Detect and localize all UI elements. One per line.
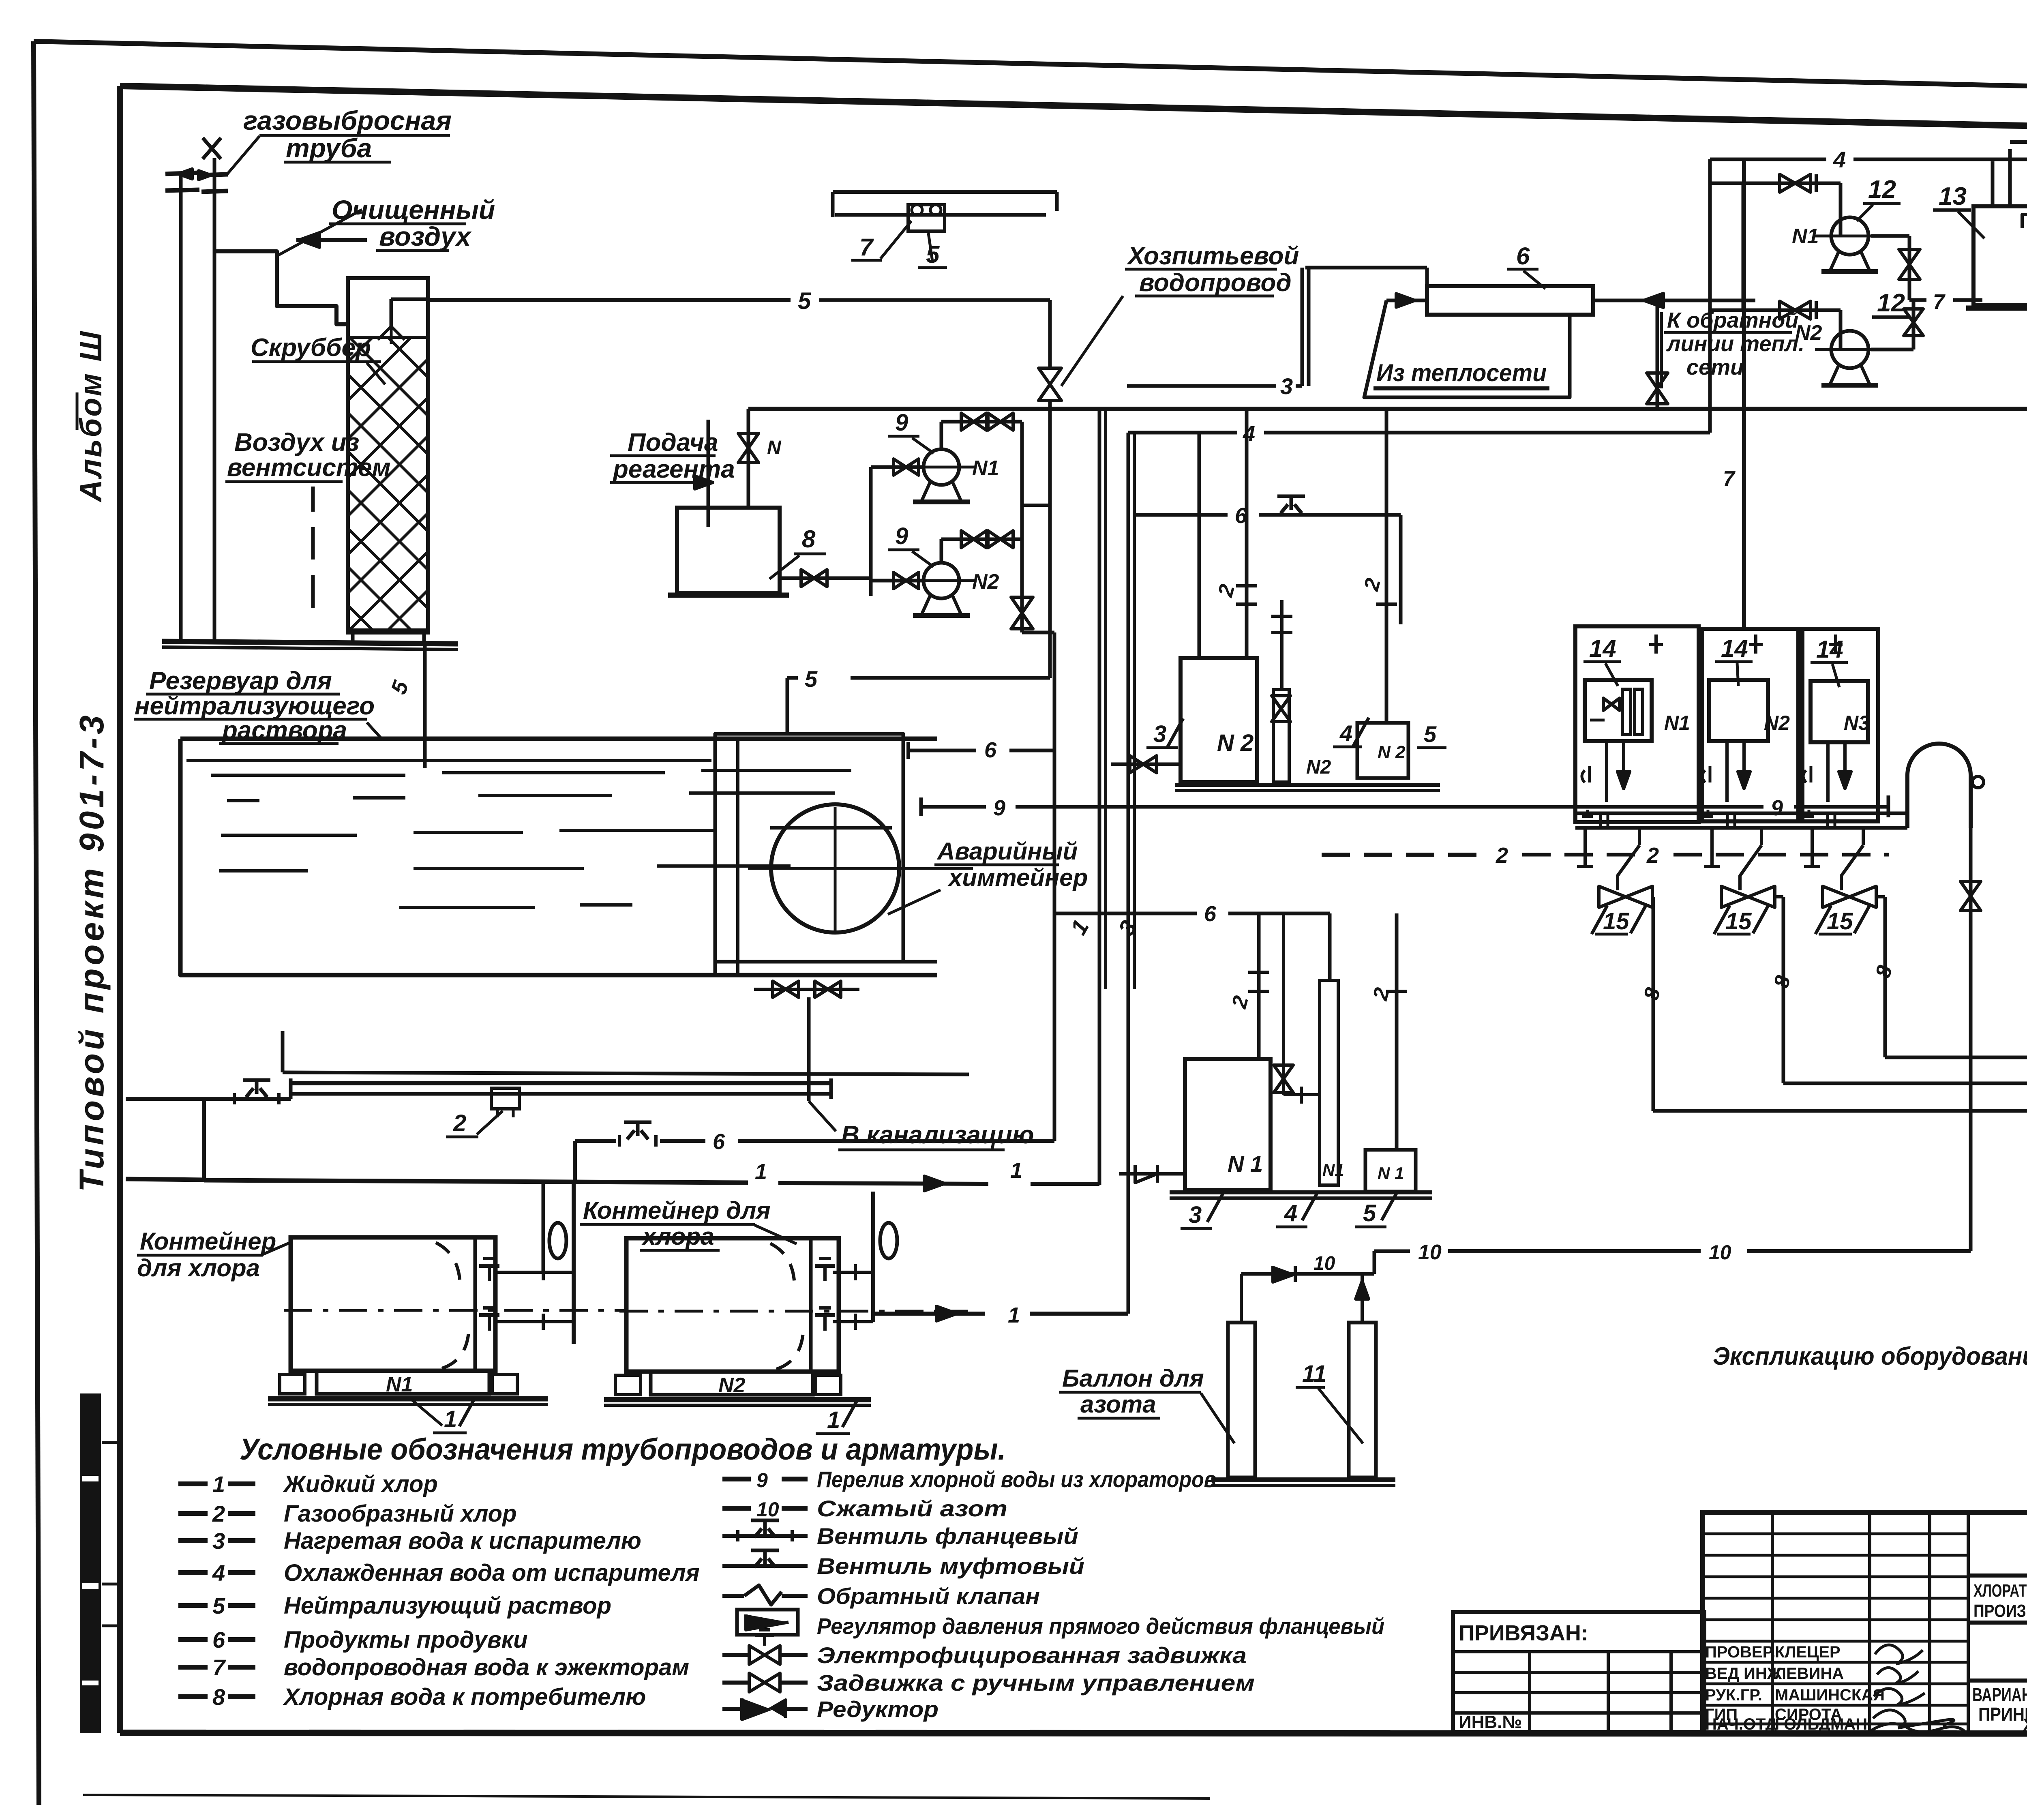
svg-text:ГОЛЬДМАН: ГОЛЬДМАН [1775,1715,1867,1733]
pipe 2 wall stub with valve [126,1097,291,1101]
top right fitting N2 [1754,635,1757,654]
evaporator vessel N2 (pos 3) [1181,658,1257,782]
top right fitting N3 [1834,635,1837,654]
svg-text:14: 14 [1589,635,1616,662]
svg-text:Газообразный хлор: Газообразный хлор [284,1501,517,1527]
svg-text:12: 12 [1877,289,1905,317]
svg-text:N3: N3 [1844,712,1870,734]
svg-text:НАЧ.ОТД: НАЧ.ОТД [1705,1715,1777,1733]
heating loop from network [1364,300,1570,397]
pipe 1 riser from wall [202,1099,206,1180]
pump 9 N2 discharge [940,539,943,563]
return line with valve [1593,299,1755,302]
chimney flange ticks [165,173,199,174]
pump N2 discharge [1871,348,1913,352]
chlorine container N2 [626,1238,839,1372]
svg-text:9: 9 [993,796,1005,820]
emergency chem container circle [771,804,899,933]
svg-text:Нейтрализующий раствор: Нейтрализующий раствор [284,1593,611,1619]
loop seal pipe arc [1907,744,1971,828]
sheet inner frame [120,86,2027,134]
svg-text:Очищенный: Очищенный [332,195,495,225]
check valve at inlet [1119,1172,1185,1176]
svg-text:МАШИНСКАЯ: МАШИНСКАЯ [1775,1686,1885,1704]
pipe 5 from scrubber [428,298,791,302]
base under lower evaporators [1170,1190,1432,1194]
legend symbol: flanged valve [722,1534,808,1538]
pipe to heat exchanger [1305,266,1427,270]
svg-text:ПРОВЕР.: ПРОВЕР. [1705,1643,1775,1661]
svg-text:газовыбросная: газовыбросная [243,105,452,135]
svg-text:химтейнер: химтейнер [947,864,1088,891]
svg-text:N2: N2 [972,570,999,594]
valve 15 (N2) [1721,886,1748,907]
svg-text:Хозпитьевой: Хозпитьевой [1127,242,1299,270]
container N1 axis [284,1309,624,1312]
chlorinator 14 N1 cabinet [1575,626,1699,822]
inlet valve [1111,763,1181,766]
small hatch on top [2022,214,2027,228]
pump loop top pipe 4 [1710,158,1826,161]
svg-text:4: 4 [1833,147,1846,172]
legend line type 4 [178,1570,208,1575]
monorail beam 2 [291,1081,831,1085]
suction valve N2 [871,579,924,583]
svg-text:11: 11 [1302,1361,1326,1387]
pipe 10 horizontal [1374,1250,1410,1253]
svg-text:Из теплосети: Из теплосети [1376,359,1547,386]
vertical pipe 3 (long) [1127,433,1130,1314]
ejector jog N3 [1862,828,1865,845]
pipe 6 upper segment [908,749,976,752]
top stubs of apparatus 13 [1991,161,1995,206]
chlorinator 14 N2 cabinet [1702,629,1798,821]
branch to pump 12 N2 [1710,309,1841,312]
electro valve on pipe 5 [1039,368,1061,384]
container N2 outlet stubs [833,1271,873,1274]
svg-text:Обратный клапан: Обратный клапан [817,1583,1040,1609]
vertical pipe 2c [1198,433,1201,658]
tank 8 [677,508,780,593]
svg-text:РУК.ГР.: РУК.ГР. [1705,1686,1762,1704]
technical water pipes [2010,140,2027,144]
svg-text:N1: N1 [1792,225,1819,248]
svg-text:7: 7 [1723,467,1736,491]
small vessel N1 (pos 5) [1365,1150,1416,1192]
svg-text:7: 7 [212,1655,226,1680]
pipe 3 riser [1301,268,1304,386]
chlorinator 14 N3 body [1811,681,1868,742]
legend line type 8 [178,1694,208,1699]
riser to level column [1280,600,1283,690]
svg-text:водопроводная вода к эжекторам: водопроводная вода к эжекторам [284,1654,689,1681]
pipe 10 elbow to bottles [1373,1251,1376,1274]
svg-text:5: 5 [805,666,818,692]
branch to pump 12 N1 [1710,182,1841,185]
svg-text:N1: N1 [972,457,999,480]
vertical pipe 2 to evaporator N2 [1245,409,1249,658]
pump discharge header down [1020,422,1024,632]
pipe riser mid [281,1031,285,1072]
legend symbol: manual gate valve [722,1681,750,1685]
svg-text:Вентиль муфтовый: Вентиль муфтовый [817,1553,1084,1579]
level column [1273,690,1289,782]
svg-text:3: 3 [1189,1202,1202,1228]
svg-text:Условные обозначения трубопров: Условные обозначения трубопроводов и арм… [240,1432,1006,1466]
svg-text:14: 14 [1721,635,1748,662]
svg-text:труба: труба [286,133,372,163]
svg-text:Хлорная вода к потребителю: Хлорная вода к потребителю [283,1684,646,1710]
neutralising reservoir tank [180,737,937,741]
legend symbol: coupling valve [722,1564,808,1568]
svg-text:N2: N2 [1764,712,1790,734]
title block left grid [1771,1512,1774,1733]
svg-text:Жидкий хлор: Жидкий хлор [283,1471,438,1497]
svg-text:азота: азота [1080,1391,1156,1418]
manifold band under chlorinators [1575,812,1907,815]
svg-text:N1: N1 [1322,1160,1344,1179]
svg-text:Нагретая вода к испарителю: Нагретая вода к испарителю [284,1528,641,1554]
legend line type 7 [178,1665,208,1670]
sidebar stamp column [80,1393,101,1733]
container N2 axis [619,1310,968,1313]
svg-text:ПРОИЗВОДИТЕЛЬНОСТЬЮ 12,5КГ ТОВ: ПРОИЗВОДИТЕЛЬНОСТЬЮ 12,5КГ ТОВАРНОГО ХЛО… [1973,1601,2027,1621]
svg-text:9: 9 [1771,796,1783,820]
base ticks N3 [1826,813,1829,828]
svg-text:9: 9 [895,409,908,436]
legend line type 10 [722,1506,751,1511]
loop mid riser [1742,183,1745,310]
svg-text:1: 1 [1010,1158,1022,1183]
svg-text:Подача: Подача [628,429,718,457]
svg-text:ПРИВЯЗАН:: ПРИВЯЗАН: [1459,1621,1588,1645]
chlorinator N1 internals [1605,741,1608,802]
container N1 pedestal [317,1371,489,1394]
svg-text:ХЛОРАТОРНАЯ ДЛЯ ОБЕЗЗАРАЖИВАНИ: ХЛОРАТОРНАЯ ДЛЯ ОБЕЗЗАРАЖИВАНИЯ ПИТЬЕВЫХ… [1973,1581,2027,1601]
svg-text:Типовой проект 901-7-3: Типовой проект 901-7-3 [73,712,111,1192]
svg-text:вентсистем: вентсистем [227,454,391,482]
svg-text:5: 5 [1424,721,1437,747]
ejector jog N1 [1638,828,1641,845]
svg-text:N 2: N 2 [1378,742,1406,762]
pipe 4 long line [1128,431,1237,435]
drain valves under emergency container [754,988,859,991]
svg-text:ХЛОРАТОРНОЙ.: ХЛОРАТОРНОЙ. [2023,1715,2027,1734]
vertical pipe 2 to lower evaporator [1257,913,1261,1059]
svg-text:Экспликацию оборудования см. л: Экспликацию оборудования см. лист: НК-3 [1713,1342,2027,1370]
svg-text:Альбом Ш: Альбом Ш [74,330,108,503]
suction valve N1 [871,465,924,469]
pipe 9 long manifold [921,805,986,809]
svg-text:N 2: N 2 [1217,730,1253,756]
chlorine container N1 [291,1237,495,1371]
vertical pipe 2b [1385,409,1388,624]
pipe 2 dash-dot to chlorinators [1322,853,1487,857]
legend symbol: check valve [722,1594,744,1598]
svg-text:10: 10 [756,1498,779,1521]
pipe 6 to evaporators [575,1139,616,1143]
svg-text:10: 10 [1313,1253,1335,1274]
svg-text:6: 6 [1516,242,1530,270]
valve 15 (N1) [1599,886,1626,907]
svg-text:3: 3 [1280,373,1293,399]
scrubber vessel [348,278,428,632]
svg-text:N2: N2 [1306,757,1331,778]
attachment stamp table [1453,1612,1704,1732]
monorail beam 7 [833,190,1057,194]
svg-text:Контейнер: Контейнер [140,1228,276,1255]
svg-text:7: 7 [1933,290,1946,314]
legend symbol: reducer [722,1707,746,1711]
pipe 7 to apparatus 13 [1909,298,1926,302]
container N1 dashed curves [436,1243,460,1287]
nitrogen bottle right (pos 11) [1349,1323,1376,1477]
svg-text:ВАРИАНТ ПОДАЧИ ХЛОРНОЙ ВОДЫ.: ВАРИАНТ ПОДАЧИ ХЛОРНОЙ ВОДЫ. [1972,1684,2027,1705]
valve at tank 8 outlet [780,577,871,580]
water surface dashes [211,774,405,777]
suction header for pumps 9 [869,467,873,596]
svg-text:2: 2 [453,1110,466,1136]
pipe 6 from evaporators [1134,513,1228,517]
svg-text:водопровод: водопровод [1139,269,1292,297]
svg-text:15: 15 [1827,908,1853,935]
vertical pipe 1 (long) [1098,409,1101,1185]
legend symbol: electric gate valve [722,1653,750,1657]
bottles base [1211,1477,1395,1482]
title block frame [1703,1512,2027,1733]
svg-text:N1: N1 [1664,712,1690,734]
svg-text:воздух: воздух [379,221,472,251]
container N1 valves [488,1265,491,1281]
svg-text:Аварийный: Аварийный [936,838,1078,865]
svg-text:1: 1 [212,1471,225,1497]
valve 15 (N3) [1823,886,1849,907]
chlorinator 14 N3 cabinet [1802,629,1878,821]
leader line [279,210,362,255]
pipe 1 long line [126,1179,204,1180]
pump 12 N1 [1831,217,1868,255]
svg-text:для хлора: для хлора [137,1254,260,1282]
pipe main horizontal (drinking water header) [748,407,2027,411]
container N1 outlet stubs [497,1271,574,1274]
base ticks N2 [1726,813,1729,828]
container N2 side riser [871,1192,875,1322]
svg-text:10: 10 [1709,1241,1731,1264]
svg-text:5: 5 [1363,1200,1376,1226]
svg-text:Скруббер: Скруббер [251,334,371,362]
svg-text:N 1: N 1 [1228,1151,1263,1177]
vent air dashed duct [311,487,315,512]
chimney top X mark [203,138,221,159]
flange ticks lower [1248,990,1269,993]
chlorine water drop N3 [1876,895,1885,898]
feed pipe to chlorinator N2 [1742,159,1746,629]
svg-text:Охлажденная вода от испарителя: Охлажденная вода от испарителя [284,1560,700,1586]
svg-text:Сжатый азот: Сжатый азот [817,1496,1007,1521]
svg-text:8: 8 [802,525,816,553]
svg-text:Вентиль фланцевый: Вентиль фланцевый [817,1523,1078,1549]
duct from chimney to scrubber [214,251,348,324]
drain pipe to sewer [807,997,811,1101]
svg-text:5: 5 [798,288,811,314]
scrubber spray nozzle [390,299,393,326]
svg-text:Электрофицированная задвижка: Электрофицированная задвижка [817,1642,1247,1668]
svg-text:Контейнер для: Контейнер для [583,1197,771,1224]
svg-text:ЛЕВИНА: ЛЕВИНА [1775,1665,1844,1683]
svg-text:ПРИНЦИПИАЛЬНАЯ СХЕМА: ПРИНЦИПИАЛЬНАЯ СХЕМА [1978,1704,2027,1725]
svg-text:сети: сети [1686,355,1744,379]
pressure regulator 2 on rail [491,1088,519,1109]
svg-text:1: 1 [444,1406,457,1432]
signatures [1875,1645,1923,1664]
pipe 5 into reservoir [423,644,427,768]
svg-text:8: 8 [212,1684,225,1710]
svg-text:1: 1 [755,1160,767,1184]
chlorine water drop N1 [1652,895,1653,898]
nitrogen bottle left [1228,1323,1255,1477]
svg-text:1: 1 [1008,1303,1020,1327]
svg-text:Продукты продувки: Продукты продувки [284,1627,528,1653]
container N2 pedestal [651,1372,813,1395]
svg-text:Редуктор: Редуктор [817,1696,939,1722]
flow arrow left [296,238,367,242]
svg-text:N1: N1 [386,1373,413,1396]
base ticks N1 [1599,813,1602,828]
container N2 dashed curves [770,1243,795,1288]
loop left riser [1708,159,1712,433]
svg-text:4: 4 [1339,720,1352,746]
chlorinator N3 internals [1826,742,1830,802]
sheet outer border [34,41,2027,96]
riser to nitrogen line [1969,828,1973,1251]
svg-text:7: 7 [859,234,874,261]
svg-text:В канализацию: В канализацию [841,1121,1034,1149]
pump 9 N1 [924,449,959,485]
svg-text:1: 1 [827,1407,840,1433]
svg-text:4: 4 [1284,1200,1297,1226]
svg-text:N: N [767,437,782,459]
svg-text:15: 15 [1725,908,1752,935]
nitrogen bottle manifold [1241,1272,1374,1276]
svg-text:6: 6 [212,1627,225,1653]
heat exchanger 6 [1427,286,1593,315]
svg-text:хлора: хлора [641,1223,714,1250]
inter-container riser [572,1180,576,1344]
vertical pipe 3a (pair) [1133,433,1136,989]
svg-text:2: 2 [1646,843,1659,868]
base line under evaporators N2 [1175,783,1440,787]
svg-text:14: 14 [1816,636,1843,663]
svg-text:5: 5 [212,1593,225,1618]
valve N on pump return line [747,409,750,508]
svg-text:6: 6 [713,1130,725,1154]
svg-text:N2: N2 [1795,321,1822,345]
svg-text:Резервуар для: Резервуар для [149,667,332,695]
scrubber legs and base ground line [351,630,355,643]
small vessel N2 (pos 5) [1357,723,1408,778]
svg-text:нейтрализующего: нейтрализующего [135,692,375,720]
svg-text:10: 10 [1418,1241,1442,1264]
evaporator vessel N1 (pos 3) [1185,1059,1271,1190]
svg-text:15: 15 [1603,908,1629,935]
svg-text:КЛЕЦЕР: КЛЕЦЕР [1775,1643,1841,1661]
chlorinator N2 internals [1725,741,1729,802]
svg-text:ВЕД ИНЖ: ВЕД ИНЖ [1705,1665,1782,1683]
legend symbol: pressure regulator [737,1610,798,1635]
svg-text:Воздух из: Воздух из [234,429,359,457]
vertical pipe 2d [1395,913,1399,1150]
svg-text:Перелив хлорной воды из хлорат: Перелив хлорной воды из хлораторов [817,1466,1216,1492]
ejector jog N2 [1760,828,1763,845]
chlorinator 14 N2 body [1709,680,1768,741]
pump N1 discharge valve [1871,234,1909,238]
legend line type 2 [178,1511,208,1516]
svg-text:12: 12 [1868,176,1896,204]
svg-text:2: 2 [212,1501,225,1526]
pipe 5 horizontal to emergency tank [851,676,1050,680]
emergency container enclosure [715,734,903,975]
svg-text:Баллон для: Баллон для [1062,1365,1204,1392]
svg-text:2: 2 [1496,843,1508,868]
pump 9 N1 discharge [940,422,943,449]
svg-text:N 1: N 1 [1378,1164,1404,1183]
ejector 5 on rail [908,205,945,231]
vertical pipe 1a (pair) [1104,409,1107,989]
reagent pipe down to tank 8 [707,420,710,527]
legend line type 1 [178,1481,208,1486]
valve on lower riser [1282,913,1285,981]
chlorine water drop N2 [1775,895,1783,898]
pipe 1 lower line [873,1312,985,1316]
gas exhaust chimney [179,173,183,643]
svg-text:3: 3 [212,1528,225,1554]
svg-text:5: 5 [926,241,940,268]
svg-text:N2: N2 [718,1374,746,1397]
svg-text:Регулятор давления прямого дей: Регулятор давления прямого действия флан… [817,1613,1384,1639]
svg-text:13: 13 [1939,182,1967,210]
top right fitting N1 [1654,635,1658,654]
pump 12 N2 [1831,331,1868,368]
label: К обратной линии тепл. сети [1660,312,1663,388]
svg-text:6: 6 [984,738,997,762]
svg-text:линии тепл.: линии тепл. [1666,332,1804,356]
apparatus 13 vessel [1973,206,2027,305]
flange ticks upper [1236,602,1257,606]
level column lower [1320,980,1338,1185]
svg-text:4: 4 [1243,422,1255,446]
svg-text:ИНВ.№: ИНВ.№ [1459,1712,1522,1732]
pipe 6 lower segment [1054,912,1197,915]
svg-text:Задвижка с ручным управлением: Задвижка с ручным управлением [817,1670,1255,1696]
pump 9 N2 [924,563,959,598]
legend line type 6 [178,1637,208,1642]
svg-text:3: 3 [1153,721,1166,747]
svg-text:9: 9 [756,1469,768,1492]
svg-text:реагента: реагента [612,455,735,483]
svg-text:9: 9 [895,523,908,549]
legend line type 9 [722,1477,751,1481]
legend line type 5 [178,1603,208,1608]
chlorinator 14 N1 body [1585,680,1652,741]
leader to chimney [227,136,259,174]
leader to pipe [1061,296,1123,386]
svg-text:6: 6 [1204,902,1217,926]
container N2 valves [823,1265,827,1281]
pipe 5 drop with valve [1048,300,1052,367]
svg-text:4: 4 [212,1560,225,1586]
legend line type 3 [178,1538,208,1543]
